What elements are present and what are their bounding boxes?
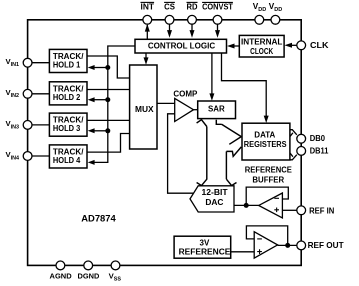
block INTERNAL CLOCK — [239, 35, 284, 57]
arrowhead CONVST into control logic — [215, 30, 220, 38]
svg-text:VIN4: VIN4 — [6, 150, 20, 161]
block SAR — [198, 101, 236, 119]
pin VSS — [109, 261, 122, 283]
svg-text:BUFFER: BUFFER — [252, 175, 284, 184]
wire: control logic to MUX — [145, 53, 147, 59]
svg-text:CS: CS — [164, 2, 175, 11]
pin REF OUT — [297, 241, 344, 250]
block TRACK/HOLD 3 — [49, 113, 87, 136]
svg-text:REF OUT: REF OUT — [308, 241, 344, 250]
label REFERENCE BUFFER — [245, 166, 293, 185]
pin DB0 — [297, 134, 326, 143]
arrowhead into data registers top — [264, 116, 269, 123]
pin VIN4 — [6, 150, 33, 161]
svg-text:DB11: DB11 — [310, 147, 329, 156]
svg-text:CLK: CLK — [310, 41, 329, 50]
svg-text:CONVST: CONVST — [202, 2, 233, 11]
svg-text:VDD: VDD — [269, 2, 282, 13]
bus: data registers to DB11 pin arrow — [290, 153, 297, 160]
svg-text:REFERENCE: REFERENCE — [245, 166, 293, 175]
wire: branch to track/hold 2 — [93, 99, 108, 101]
pin INT (active low) — [141, 2, 155, 24]
pin REF IN — [297, 206, 335, 216]
wire: CLK pin to internal clock — [291, 44, 297, 46]
svg-text:MUX: MUX — [135, 104, 154, 114]
pin VDD 1 — [253, 2, 266, 24]
arrowhead RD into control logic — [190, 30, 195, 38]
op-amp output buffer U2 (points right) — [254, 232, 277, 258]
op-amp reference buffer U1 (points left) — [259, 193, 283, 218]
block TRACK/HOLD 1 — [49, 49, 87, 72]
wire: control logic to SAR — [211, 53, 213, 95]
pin AGND (analog ground) — [50, 261, 73, 281]
pin CLK — [297, 41, 329, 50]
svg-text:12-BIT: 12-BIT — [202, 187, 229, 197]
svg-text:AD7874: AD7874 — [81, 213, 116, 224]
comparator COMP — [173, 90, 198, 122]
wire: control logic to data registers — [222, 53, 267, 117]
wire: branch to track/hold 3 — [93, 130, 108, 132]
svg-text:HOLD 3: HOLD 3 — [53, 123, 81, 133]
arrowhead into control logic right — [227, 44, 235, 49]
wire: control logic to track/hold control bus — [93, 46, 136, 162]
junction dot at TRACK/HOLD 2 branch — [105, 97, 110, 102]
junction dot on reference buffer output — [244, 203, 249, 208]
wire: comparator output to SAR — [194, 109, 198, 111]
block DATA REGISTERS — [242, 123, 290, 160]
pin VIN2 — [6, 88, 33, 99]
svg-text:REGISTERS: REGISTERS — [244, 139, 287, 149]
junction dot at TRACK/HOLD 3 branch — [105, 128, 110, 133]
svg-text:COMP: COMP — [173, 90, 198, 99]
wire: CONVST pin stem to control logic — [217, 24, 219, 31]
svg-text:VIN3: VIN3 — [6, 119, 20, 130]
pin DGND (digital ground) — [78, 261, 100, 281]
arrowhead into MUX top — [144, 57, 149, 64]
wire: INT pin stem from control logic — [146, 25, 148, 39]
svg-text:AGND: AGND — [50, 272, 73, 281]
svg-text:INT: INT — [141, 2, 155, 11]
wire: DAC output feedback to comparator — [168, 114, 195, 193]
svg-text:CONTROL LOGIC: CONTROL LOGIC — [148, 41, 215, 51]
block MUX — [130, 65, 157, 149]
svg-text:SAR: SAR — [208, 104, 226, 114]
svg-text:DGND: DGND — [78, 272, 100, 281]
wire: internal clock to control logic — [234, 45, 240, 47]
svg-text:REFERENCE: REFERENCE — [179, 246, 231, 256]
pin CS (active low) — [164, 2, 175, 24]
pin DB11 — [297, 147, 329, 156]
arrowhead into TRACK/HOLD 4 — [88, 160, 95, 165]
arrowhead into TRACK/HOLD 3 — [88, 128, 95, 133]
svg-text:DB0: DB0 — [310, 134, 326, 143]
junction dot on REF OUT line — [285, 243, 290, 248]
wire: DAC output to reference buffer — [234, 204, 259, 206]
bus: SAR to DAC bidirectional hollow arrow — [197, 120, 242, 186]
svg-text:HOLD 2: HOLD 2 — [53, 92, 81, 102]
wire: 3V reference to output buffer — [231, 251, 255, 253]
wire: TRACK/HOLD 1 output to MUX — [87, 56, 129, 78]
svg-text:HOLD 1: HOLD 1 — [53, 60, 81, 70]
wire: TRACK/HOLD 4 output to MUX — [87, 134, 129, 153]
pin VIN3 — [6, 119, 33, 130]
arrowhead into internal clock — [284, 43, 292, 48]
wire: VIN1 pin to TRACK/HOLD 1 — [32, 62, 49, 64]
wire: MUX to comparator — [157, 102, 175, 104]
svg-text:RD: RD — [187, 2, 198, 11]
wire: output buffer feedback loop — [246, 226, 287, 246]
svg-text:VSS: VSS — [109, 271, 122, 282]
pin VIN1 — [6, 57, 33, 68]
block 3V REFERENCE — [174, 236, 231, 258]
arrowhead into SAR top — [209, 93, 214, 100]
pin CONVST (active low) — [202, 2, 233, 24]
pin VDD 2 — [269, 2, 282, 24]
svg-text:DATA: DATA — [254, 129, 275, 139]
wire: TRACK/HOLD 2 output to MUX — [87, 89, 129, 91]
arrowhead into TRACK/HOLD 1 — [88, 65, 95, 70]
wire: branch to track/hold 1 — [93, 67, 108, 69]
wire: TRACK/HOLD 3 output to MUX — [87, 119, 129, 121]
wire: VIN2 pin to TRACK/HOLD 2 — [32, 93, 49, 95]
wire: output buffer to REF OUT pin — [278, 244, 297, 246]
svg-text:HOLD 4: HOLD 4 — [53, 155, 81, 165]
arrowhead CS into control logic — [167, 30, 172, 38]
arrowhead into TRACK/HOLD 2 — [88, 97, 95, 102]
pin RD (active low) — [187, 2, 198, 24]
wire: RD pin stem to control logic — [191, 24, 193, 31]
svg-text:REF IN: REF IN — [309, 207, 334, 216]
junction dot at TRACK/HOLD 1 branch — [105, 65, 110, 70]
block CONTROL LOGIC — [135, 39, 227, 53]
wire: CS pin stem to control logic — [169, 24, 171, 31]
svg-text:VDD: VDD — [253, 2, 266, 13]
svg-text:VIN1: VIN1 — [6, 57, 20, 68]
svg-text:DAC: DAC — [205, 197, 223, 207]
wire: VIN4 pin to TRACK/HOLD 4 — [32, 155, 49, 157]
arrowhead up to INT pin — [145, 24, 150, 32]
wire: REF IN pin to reference buffer — [282, 209, 296, 211]
svg-text:CLOCK: CLOCK — [250, 46, 274, 56]
block TRACK/HOLD 2 — [49, 82, 87, 105]
DAC 12-BIT pentagon — [190, 186, 234, 212]
wire: VIN3 pin to TRACK/HOLD 3 — [32, 124, 49, 126]
svg-text:VIN2: VIN2 — [6, 88, 20, 99]
chip boundary AD7874 — [28, 20, 302, 266]
wire: reference buffer feedback loop — [246, 187, 288, 205]
block TRACK/HOLD 4 — [49, 145, 87, 168]
bus: data registers to DB0 pin arrow — [290, 130, 297, 137]
